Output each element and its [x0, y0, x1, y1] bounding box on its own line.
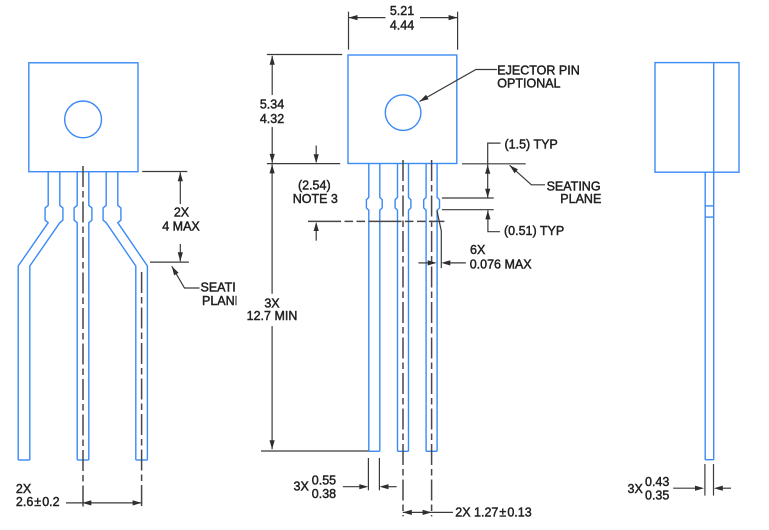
svg-text:(0.51) TYP: (0.51) TYP: [504, 224, 564, 238]
left lead 2 (center, straight): [74, 172, 92, 460]
middle dim (1.5) TYP: [485, 138, 558, 198]
middle dim 3X 0.55/0.38: [294, 474, 397, 502]
left dim 2.6 leader tail: [66, 502, 82, 504]
left dim 2X 4 MAX: [162, 172, 200, 261]
middle dim 2X 1.27&#177;0.13: [403, 506, 532, 520]
left view TO-92 body outline: [29, 63, 138, 172]
left lead 3 (bent outward right): [103, 172, 147, 460]
left dim 2X 2.6&#177;0.2 label: [16, 482, 60, 509]
svg-text:0.43: 0.43: [645, 475, 669, 489]
svg-text:0.35: 0.35: [645, 489, 669, 503]
svg-text:OPTIONAL: OPTIONAL: [497, 77, 560, 91]
middle horizontal centerline (2.54 ref): [308, 220, 444, 222]
svg-text:6X: 6X: [470, 243, 486, 257]
svg-text:3X: 3X: [628, 482, 644, 496]
left lead 1 (bent outward left): [18, 172, 63, 460]
svg-text:5.21: 5.21: [390, 4, 414, 18]
middle seating plane line: [442, 197, 494, 199]
right dim 3X 0.43/0.35 extension lines: [705, 464, 714, 496]
svg-text:2.6 ± 0.2: 2.6 ± 0.2: [16, 495, 60, 509]
svg-text:0.38: 0.38: [312, 487, 336, 501]
svg-text:4.32: 4.32: [260, 112, 284, 126]
left view ejector pin hole: [65, 101, 102, 138]
middle dim 5.34/4.32: [260, 56, 284, 163]
middle dim 3X 0.55/0.38 extension lines: [368, 458, 379, 490]
svg-text:4.44: 4.44: [390, 18, 414, 32]
left seating plane leader: [172, 266, 200, 288]
middle dim 6X 0.076 MAX arrows: [418, 243, 532, 271]
left seating plane line: [150, 261, 189, 263]
middle lead tip line: [261, 450, 369, 452]
left label SEATING PLANE (clipped): [201, 281, 255, 309]
middle lead 3: [424, 164, 440, 452]
right view body outline: [655, 63, 739, 173]
middle body top-left extension line: [267, 54, 342, 56]
left lead 2 centerline: [82, 166, 84, 509]
svg-text:EJECTOR PIN: EJECTOR PIN: [497, 64, 579, 78]
svg-text:NOTE 3: NOTE 3: [293, 192, 338, 206]
middle dim 6X 0.076 MAX extension: [437, 210, 441, 268]
right view body face line: [713, 63, 715, 173]
middle crimp bottom line: [442, 209, 494, 211]
middle lead 2: [395, 164, 411, 452]
middle view ejector pin hole: [385, 95, 421, 131]
left dim 2.6 dimension line: [82, 500, 141, 505]
middle body bottom extension right: [462, 163, 526, 165]
ejector pin leader: [420, 70, 498, 102]
right view lead crimp marks: [705, 206, 714, 217]
left dim 2X 4 MAX extension line (body bottom): [142, 171, 187, 173]
svg-text:4 MAX: 4 MAX: [162, 219, 200, 233]
left lead 3 centerline: [141, 272, 143, 509]
label EJECTOR PIN OPTIONAL: [497, 64, 579, 91]
middle label SEATING PLANE: [547, 180, 602, 207]
middle dim (2.54) NOTE 3: [293, 146, 338, 241]
middle body bottom-left extension line: [267, 163, 340, 165]
middle dim 3X 12.7 MIN: [247, 164, 298, 449]
right view lead: [705, 172, 714, 460]
middle lead 3 centerline: [431, 160, 433, 516]
svg-text:2X 1.27 ± 0.13: 2X 1.27 ± 0.13: [455, 506, 531, 520]
svg-text:0.076 MAX: 0.076 MAX: [470, 257, 533, 271]
svg-text:2X: 2X: [174, 205, 190, 219]
svg-text:0.55: 0.55: [312, 474, 336, 488]
middle lead 2 centerline: [402, 160, 404, 516]
middle body top extension lines: [349, 12, 458, 50]
middle dim 5.21/4.44: [349, 4, 458, 32]
svg-text:PLANE: PLANE: [560, 192, 601, 206]
svg-text:5.34: 5.34: [260, 98, 284, 112]
middle seating plane leader: [510, 165, 545, 185]
svg-text:2X: 2X: [16, 482, 32, 496]
svg-text:(1.5) TYP: (1.5) TYP: [505, 138, 558, 152]
svg-text:3X: 3X: [294, 480, 310, 494]
svg-text:12.7 MIN: 12.7 MIN: [247, 309, 298, 323]
middle dim (0.51) TYP: [485, 210, 564, 238]
svg-text:(2.54): (2.54): [298, 178, 331, 192]
middle view TO-92 body outline: [348, 55, 457, 164]
right dim 3X 0.43/0.35: [628, 475, 732, 503]
middle lead 1: [366, 164, 382, 452]
